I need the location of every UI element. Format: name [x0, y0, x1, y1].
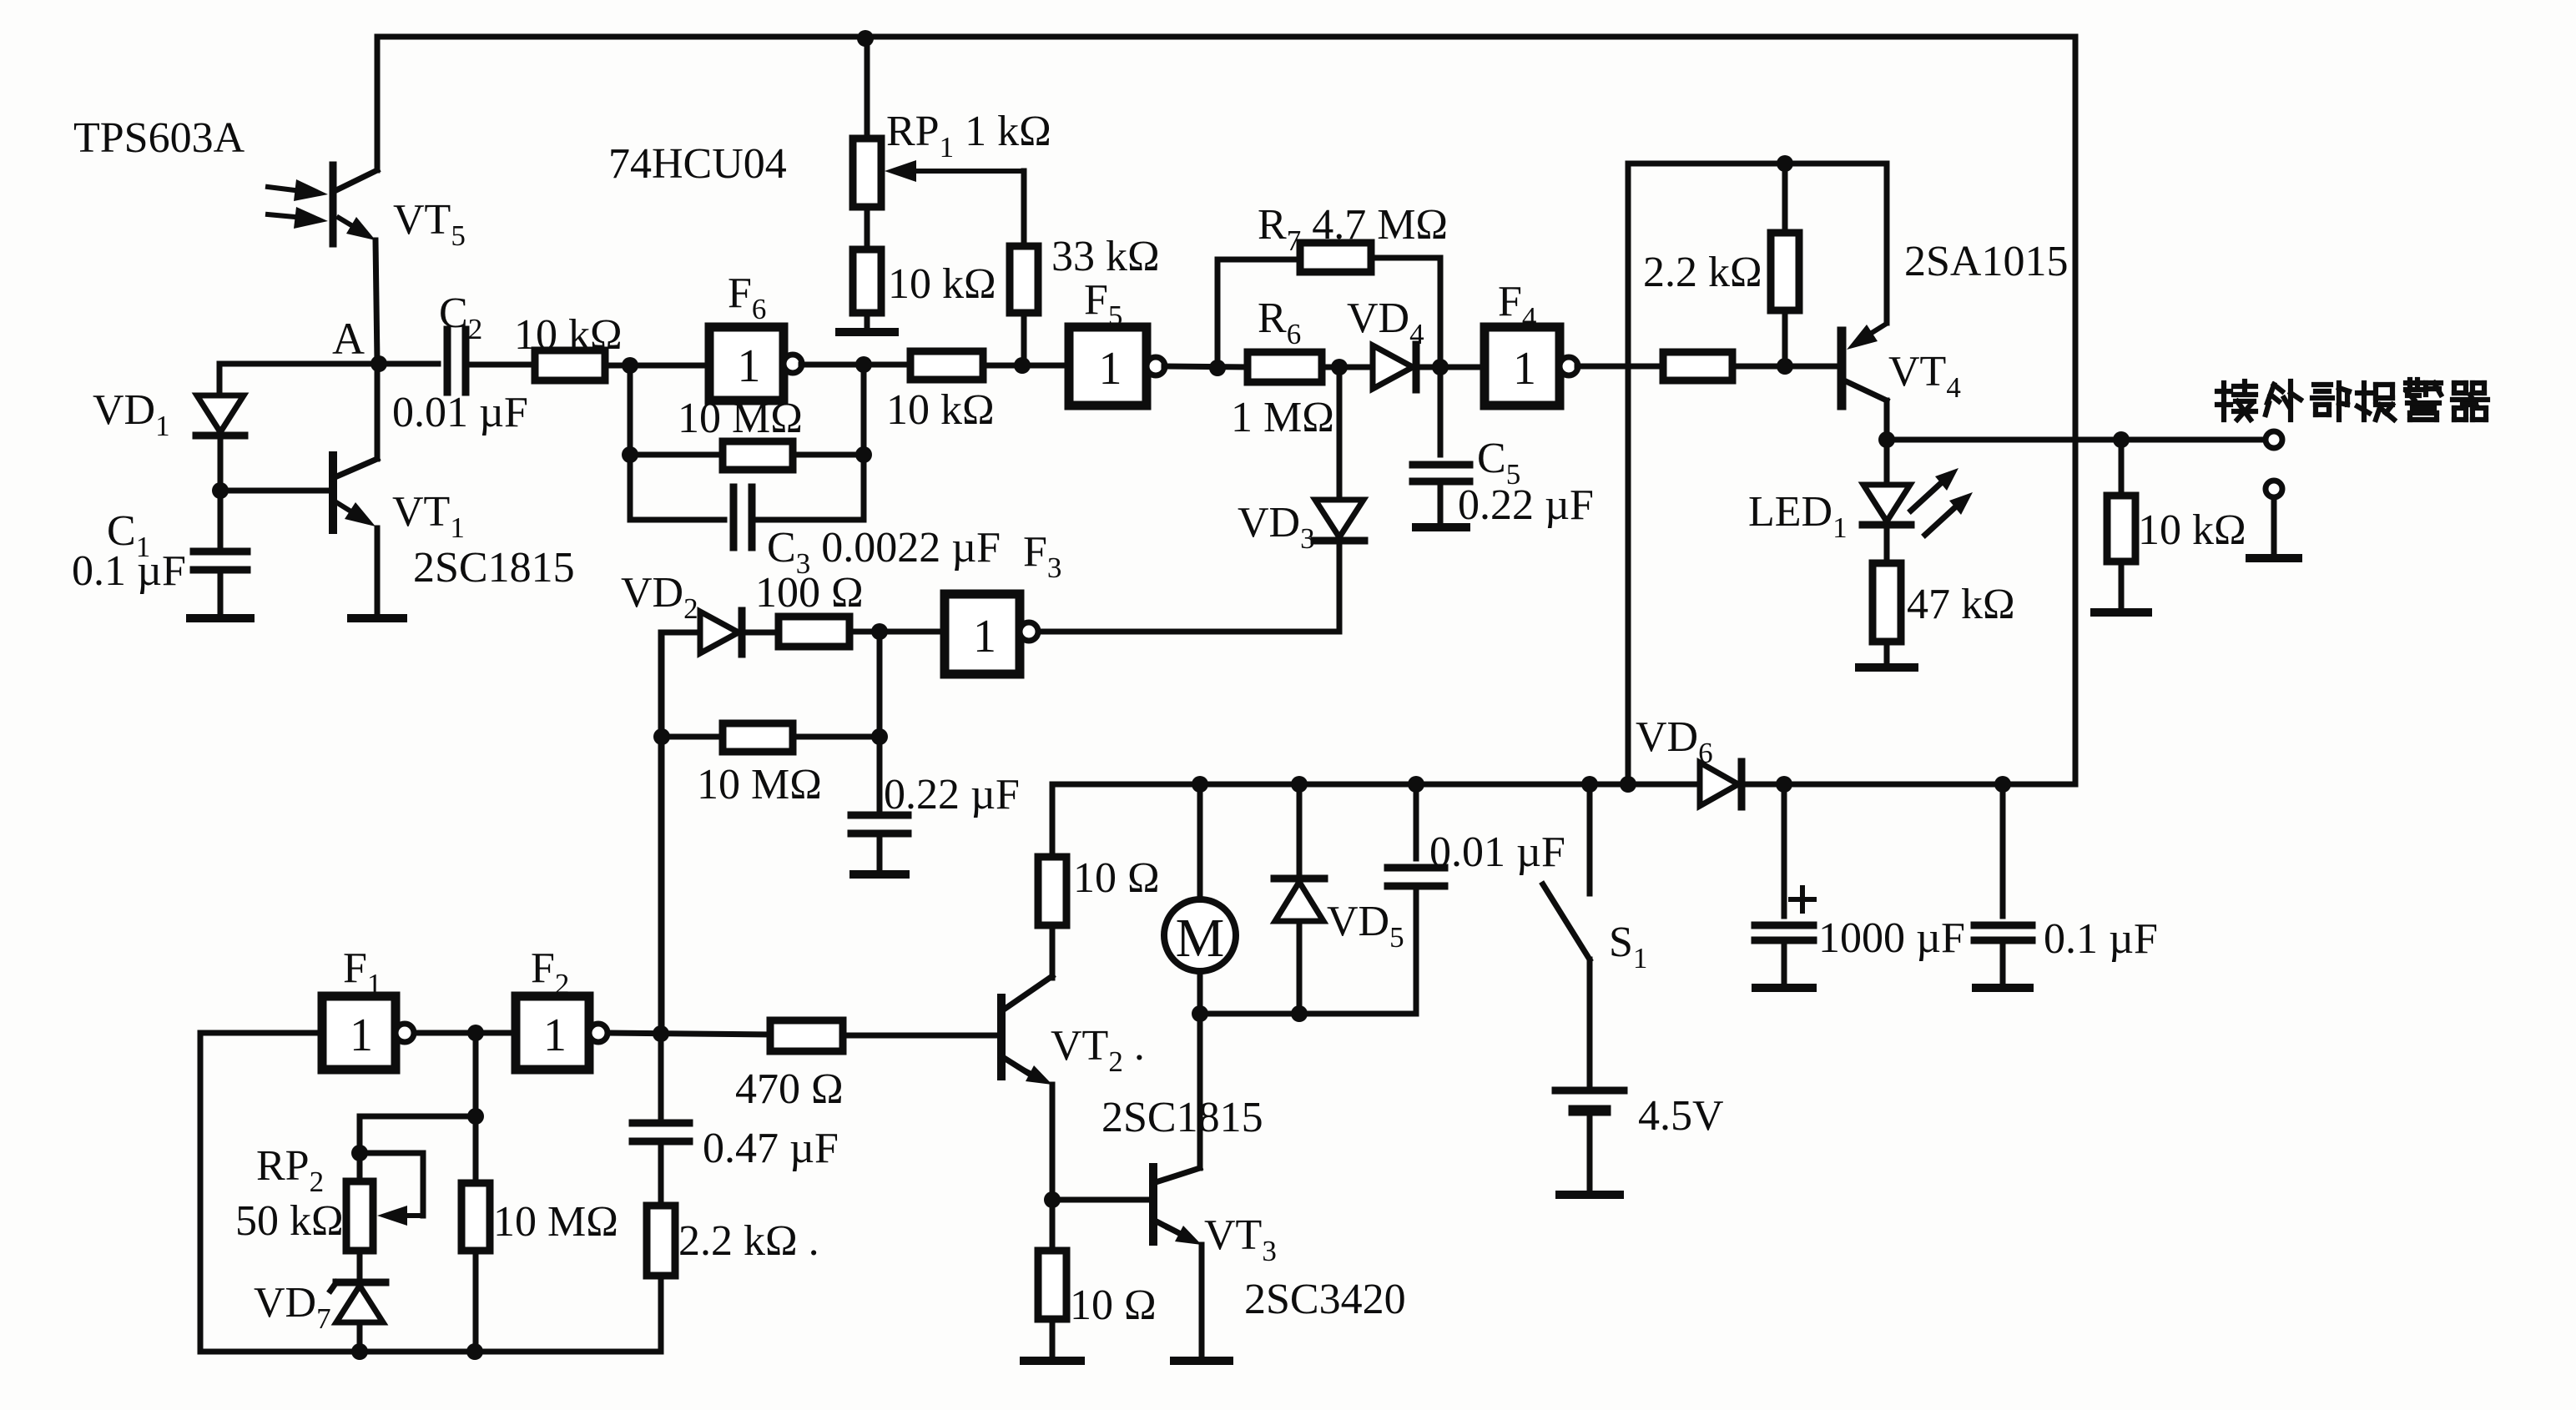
svg-text:33 kΩ: 33 kΩ [1051, 233, 1160, 280]
svg-text:2SA1015: 2SA1015 [1904, 238, 2068, 285]
svg-text:1: 1 [1513, 343, 1536, 395]
svg-text:R7 4.7 MΩ: R7 4.7 MΩ [1258, 201, 1448, 257]
svg-text:470 Ω: 470 Ω [735, 1065, 844, 1113]
svg-text:10 kΩ: 10 kΩ [2138, 506, 2246, 554]
svg-text:10 MΩ: 10 MΩ [493, 1198, 618, 1246]
svg-text:2SC3420: 2SC3420 [1244, 1276, 1406, 1323]
svg-text:0.47 µF: 0.47 µF [703, 1125, 839, 1172]
svg-text:0.22 µF: 0.22 µF [884, 771, 1020, 818]
svg-text:1: 1 [738, 340, 761, 392]
svg-text:2SC1815: 2SC1815 [1101, 1094, 1263, 1141]
svg-text:0.22 µF: 0.22 µF [1458, 481, 1594, 529]
svg-text:4.5V: 4.5V [1638, 1092, 1724, 1140]
svg-text:2SC1815: 2SC1815 [413, 544, 575, 592]
svg-text:0.01 µF: 0.01 µF [392, 389, 528, 436]
svg-text:74HCU04: 74HCU04 [608, 140, 787, 188]
svg-text:0.1 µF: 0.1 µF [2044, 915, 2158, 963]
svg-text:1 MΩ: 1 MΩ [1231, 394, 1334, 441]
svg-text:10 MΩ: 10 MΩ [697, 761, 822, 808]
svg-text:1: 1 [543, 1010, 567, 1061]
svg-text:10 Ω: 10 Ω [1073, 854, 1160, 902]
svg-text:10 Ω: 10 Ω [1070, 1282, 1157, 1329]
svg-text:10 kΩ: 10 kΩ [514, 311, 623, 359]
svg-text:10 kΩ: 10 kΩ [886, 386, 995, 434]
svg-text:VT2 .: VT2 . [1051, 1022, 1145, 1078]
svg-text:0.01 µF: 0.01 µF [1429, 828, 1565, 876]
svg-text:1: 1 [1099, 343, 1122, 395]
svg-text:100 Ω: 100 Ω [755, 569, 864, 617]
svg-text:RP1 1 kΩ: RP1 1 kΩ [886, 108, 1051, 164]
svg-text:1: 1 [350, 1010, 373, 1061]
svg-text:47 kΩ: 47 kΩ [1907, 581, 2015, 628]
svg-text:2.2 kΩ .: 2.2 kΩ . [678, 1217, 819, 1265]
svg-text:A: A [332, 314, 365, 364]
svg-text:2.2 kΩ: 2.2 kΩ [1643, 249, 1762, 296]
svg-text:M: M [1176, 908, 1225, 969]
svg-text:LED1: LED1 [1748, 488, 1848, 544]
svg-text:1: 1 [973, 611, 996, 662]
svg-text:10 kΩ: 10 kΩ [888, 260, 996, 308]
svg-text:TPS603A: TPS603A [73, 114, 245, 162]
svg-text:50 kΩ: 50 kΩ [235, 1197, 344, 1245]
svg-text:0.1 µF: 0.1 µF [72, 547, 186, 595]
svg-text:10 MΩ: 10 MΩ [678, 395, 803, 442]
svg-text:1000 µF: 1000 µF [1818, 914, 1965, 962]
